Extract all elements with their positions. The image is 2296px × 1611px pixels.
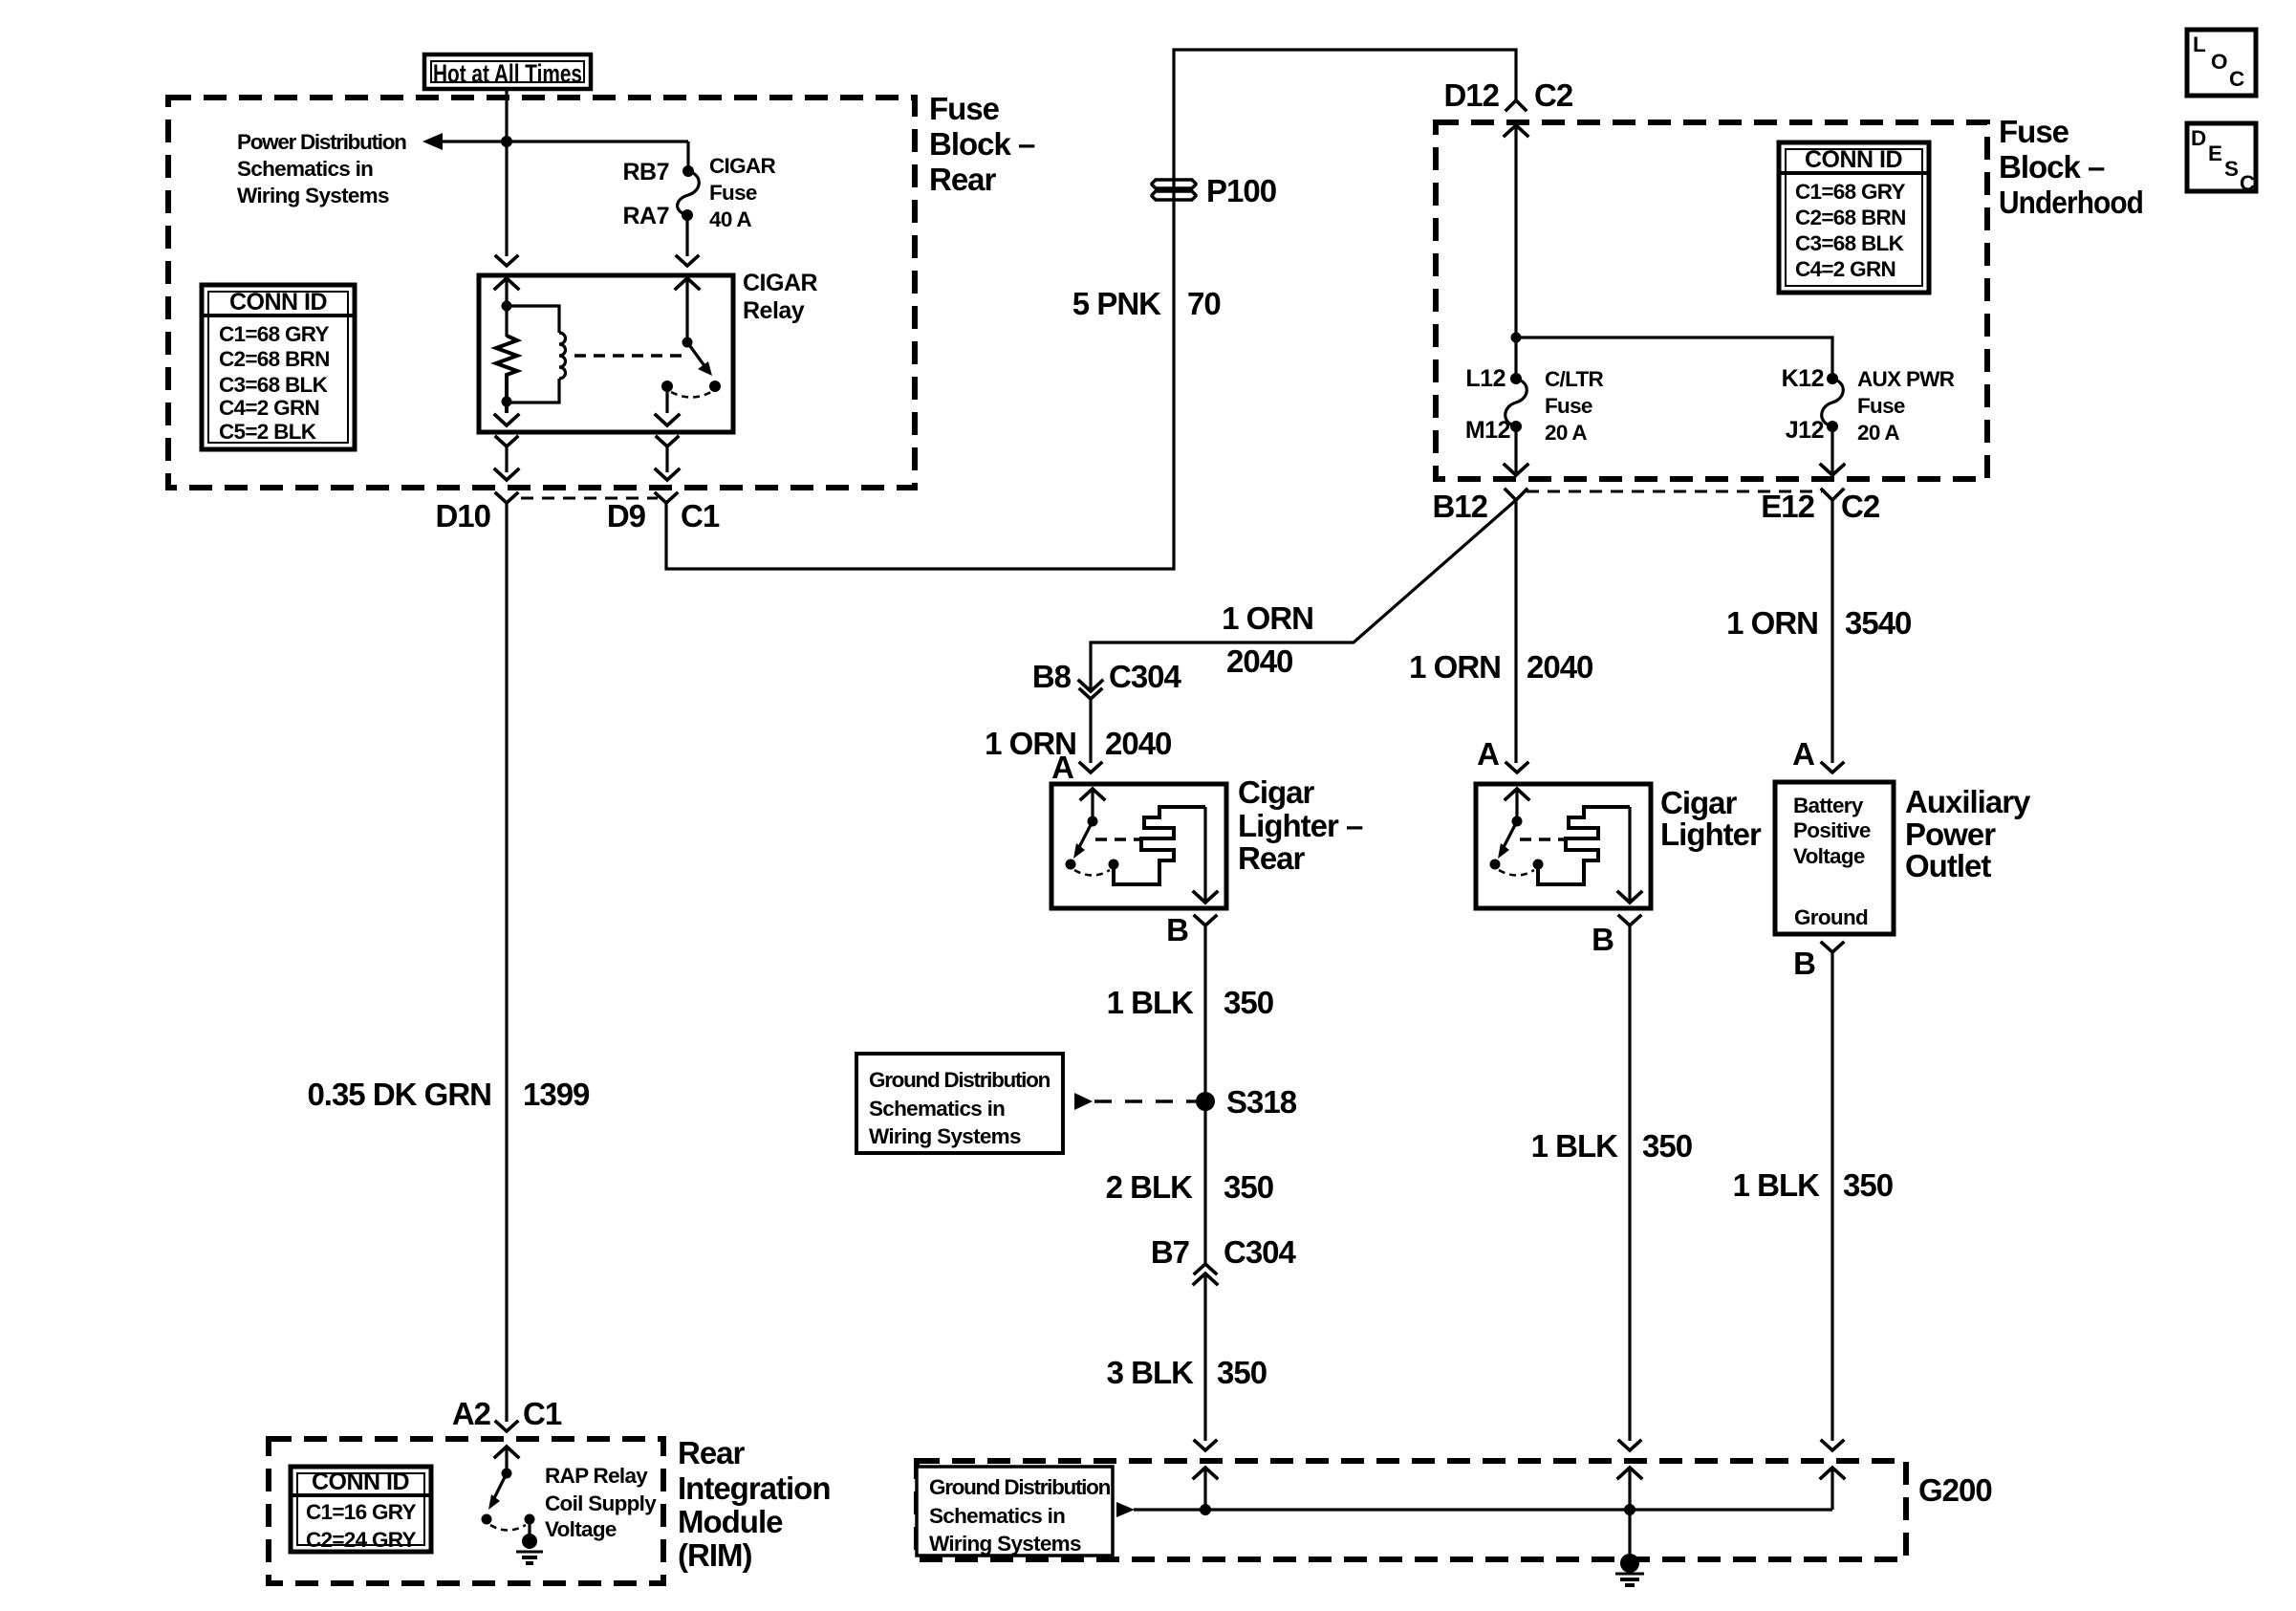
svg-text:Cigar: Cigar	[1238, 774, 1315, 810]
svg-text:Positive: Positive	[1793, 818, 1871, 842]
svg-text:C1: C1	[681, 498, 720, 533]
svg-text:1399: 1399	[523, 1077, 590, 1112]
svg-text:G200: G200	[1918, 1472, 1992, 1508]
svg-text:5 PNK: 5 PNK	[1072, 286, 1161, 321]
svg-text:A: A	[1792, 736, 1814, 772]
svg-text:70: 70	[1187, 286, 1221, 321]
svg-text:J12: J12	[1786, 417, 1824, 444]
svg-text:1 BLK: 1 BLK	[1733, 1167, 1821, 1203]
svg-text:Schematics in: Schematics in	[929, 1504, 1065, 1528]
svg-text:L12: L12	[1465, 365, 1505, 392]
svg-text:Lighter –: Lighter –	[1238, 808, 1363, 843]
svg-text:A: A	[1051, 750, 1073, 785]
svg-text:Rear: Rear	[1238, 840, 1306, 876]
svg-text:D9: D9	[607, 498, 646, 533]
svg-text:M12: M12	[1465, 417, 1510, 444]
svg-text:20 A: 20 A	[1545, 421, 1587, 445]
svg-text:1 BLK: 1 BLK	[1531, 1128, 1619, 1164]
svg-text:350: 350	[1642, 1128, 1692, 1164]
svg-text:C: C	[2240, 171, 2255, 195]
svg-text:B: B	[1592, 922, 1614, 957]
svg-text:Wiring Systems: Wiring Systems	[237, 184, 389, 207]
svg-text:Fuse: Fuse	[709, 181, 757, 205]
svg-text:B12: B12	[1432, 489, 1487, 524]
svg-text:1 ORN: 1 ORN	[1222, 600, 1313, 636]
svg-text:20 A: 20 A	[1857, 421, 1899, 445]
svg-text:Rear: Rear	[678, 1435, 746, 1470]
svg-text:2040: 2040	[1226, 643, 1292, 679]
svg-text:CONN ID: CONN ID	[229, 289, 327, 316]
svg-text:350: 350	[1843, 1167, 1893, 1203]
svg-text:C3=68 BLK: C3=68 BLK	[1795, 231, 1905, 255]
svg-text:Voltage: Voltage	[545, 1517, 617, 1541]
svg-text:C/LTR: C/LTR	[1545, 367, 1604, 391]
svg-text:Ground: Ground	[1794, 905, 1868, 929]
svg-text:B8: B8	[1032, 659, 1072, 694]
svg-text:CONN ID: CONN ID	[312, 1469, 409, 1495]
svg-text:1 ORN: 1 ORN	[1409, 649, 1501, 685]
svg-text:40 A: 40 A	[709, 207, 751, 231]
svg-text:Power: Power	[1905, 816, 1996, 852]
svg-text:Rear: Rear	[929, 162, 997, 197]
svg-text:2 BLK: 2 BLK	[1106, 1169, 1194, 1205]
svg-text:L: L	[2193, 33, 2206, 56]
svg-text:CIGAR: CIGAR	[709, 154, 775, 178]
svg-text:E: E	[2208, 142, 2222, 165]
svg-text:Lighter: Lighter	[1660, 816, 1762, 852]
svg-text:Fuse: Fuse	[1857, 394, 1905, 418]
svg-text:1 BLK: 1 BLK	[1107, 985, 1195, 1020]
svg-text:Block –: Block –	[929, 126, 1035, 162]
svg-text:RA7: RA7	[622, 203, 669, 229]
svg-text:CIGAR: CIGAR	[743, 270, 818, 296]
svg-text:Integration: Integration	[678, 1470, 831, 1506]
svg-text:B: B	[1793, 946, 1815, 981]
svg-text:350: 350	[1224, 985, 1273, 1020]
svg-text:Ground Distribution: Ground Distribution	[869, 1068, 1051, 1092]
svg-text:Wiring Systems: Wiring Systems	[929, 1532, 1081, 1556]
svg-text:O: O	[2211, 50, 2227, 74]
svg-text:C2=24 GRY: C2=24 GRY	[306, 1528, 416, 1552]
svg-text:C2: C2	[1841, 489, 1880, 524]
svg-text:D: D	[2191, 126, 2206, 150]
svg-text:S: S	[2224, 157, 2239, 181]
svg-text:Outlet: Outlet	[1905, 848, 1991, 883]
svg-text:AUX PWR: AUX PWR	[1857, 367, 1955, 391]
svg-text:Voltage: Voltage	[1793, 844, 1865, 868]
svg-text:0.35 DK GRN: 0.35 DK GRN	[307, 1077, 491, 1112]
svg-text:Underhood: Underhood	[1999, 185, 2143, 220]
svg-text:C4=2 GRN: C4=2 GRN	[1795, 257, 1895, 281]
svg-text:3 BLK: 3 BLK	[1107, 1355, 1195, 1390]
svg-text:Cigar: Cigar	[1660, 785, 1738, 820]
svg-text:Fuse: Fuse	[1545, 394, 1592, 418]
svg-text:C3=68 BLK: C3=68 BLK	[219, 373, 329, 397]
svg-text:E12: E12	[1761, 489, 1814, 524]
svg-text:Block –: Block –	[1999, 149, 2105, 185]
svg-text:RAP Relay: RAP Relay	[545, 1464, 648, 1488]
svg-text:B: B	[1166, 912, 1188, 947]
svg-text:CONN ID: CONN ID	[1805, 146, 1902, 173]
svg-text:350: 350	[1217, 1355, 1267, 1390]
svg-text:C: C	[2229, 67, 2244, 91]
svg-text:Module: Module	[678, 1504, 783, 1539]
svg-text:Battery: Battery	[1793, 794, 1864, 817]
svg-text:K12: K12	[1782, 365, 1824, 392]
svg-text:A: A	[1477, 736, 1499, 772]
svg-text:C2: C2	[1534, 77, 1573, 113]
svg-text:Coil Supply: Coil Supply	[545, 1491, 657, 1515]
svg-text:2040: 2040	[1105, 726, 1171, 761]
svg-text:P100: P100	[1206, 173, 1276, 208]
svg-text:C2=68 BRN: C2=68 BRN	[219, 347, 330, 371]
svg-text:1 ORN: 1 ORN	[1726, 605, 1818, 641]
svg-text:C4=2 GRN: C4=2 GRN	[219, 396, 319, 420]
svg-text:(RIM): (RIM)	[678, 1537, 751, 1573]
svg-text:Ground Distribution: Ground Distribution	[929, 1475, 1111, 1499]
svg-text:S318: S318	[1226, 1084, 1297, 1120]
svg-text:C304: C304	[1224, 1234, 1297, 1270]
svg-text:Wiring Systems: Wiring Systems	[869, 1124, 1021, 1148]
svg-text:350: 350	[1224, 1169, 1273, 1205]
svg-text:2040: 2040	[1527, 649, 1592, 685]
svg-text:Fuse: Fuse	[1999, 114, 2069, 149]
svg-text:C2=68 BRN: C2=68 BRN	[1795, 206, 1906, 229]
svg-text:D10: D10	[435, 498, 490, 533]
svg-text:C5=2 BLK: C5=2 BLK	[219, 420, 317, 444]
svg-text:Fuse: Fuse	[929, 91, 1000, 126]
svg-text:Schematics in: Schematics in	[869, 1097, 1005, 1121]
svg-text:3540: 3540	[1845, 605, 1911, 641]
svg-text:Power Distribution: Power Distribution	[237, 130, 406, 154]
svg-text:C1=68 GRY: C1=68 GRY	[1795, 180, 1905, 204]
svg-text:A2: A2	[452, 1396, 491, 1431]
svg-text:Schematics in: Schematics in	[237, 157, 373, 181]
svg-text:D12: D12	[1443, 77, 1499, 113]
svg-text:C1=68 GRY: C1=68 GRY	[219, 322, 329, 346]
svg-text:B7: B7	[1151, 1234, 1189, 1270]
svg-text:RB7: RB7	[622, 159, 669, 185]
svg-text:C304: C304	[1109, 659, 1182, 694]
svg-text:C1: C1	[523, 1396, 562, 1431]
svg-text:Auxiliary: Auxiliary	[1905, 784, 2031, 819]
svg-text:C1=16 GRY: C1=16 GRY	[306, 1500, 416, 1524]
svg-text:Hot at All Times: Hot at All Times	[433, 59, 582, 88]
svg-text:Relay: Relay	[743, 297, 805, 324]
